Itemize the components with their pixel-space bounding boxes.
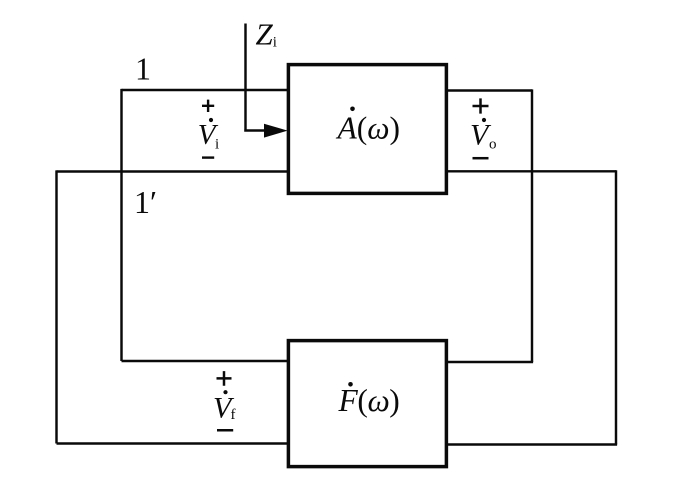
plus of Vi	[202, 100, 214, 112]
minus of Vf	[217, 429, 233, 432]
wire outer left vertical	[55, 170, 57, 443]
svg-text:A(ω): A(ω)	[336, 110, 401, 145]
wire A top output	[445, 89, 532, 91]
block A amplifier	[288, 65, 446, 194]
wire bottom left feedback	[57, 442, 291, 444]
dot above Vo	[482, 118, 486, 122]
arrowhead into A	[264, 124, 288, 138]
wire F top right	[445, 361, 533, 363]
wire top left feedback	[122, 360, 291, 362]
wire right inner vertical	[531, 89, 533, 362]
plus of Vo	[473, 98, 489, 113]
minus of Vo	[473, 157, 489, 160]
svg-text:i: i	[215, 136, 219, 152]
dot above F	[348, 382, 353, 387]
svg-text:o: o	[489, 137, 497, 153]
minus of Vi	[202, 156, 214, 158]
svg-text:f: f	[231, 407, 236, 423]
svg-text:1: 1	[135, 51, 151, 87]
wire inner left vertical	[120, 89, 122, 361]
dot above Vf	[223, 390, 227, 394]
plus of Vf	[217, 371, 232, 386]
block F feedback	[288, 341, 446, 467]
svg-text:F(ω): F(ω)	[338, 383, 400, 418]
wire Zi source vertical	[244, 24, 268, 131]
dot above Vi	[209, 118, 213, 122]
wire node1p bottom input	[57, 170, 289, 172]
wire node1 top input	[122, 89, 289, 91]
wire F bottom right	[445, 443, 617, 445]
svg-text:1′: 1′	[134, 184, 157, 220]
wire A bottom output	[445, 170, 616, 172]
svg-text:Zi: Zi	[256, 16, 277, 51]
wire right outer vertical	[615, 170, 617, 444]
dot above A	[350, 107, 355, 112]
